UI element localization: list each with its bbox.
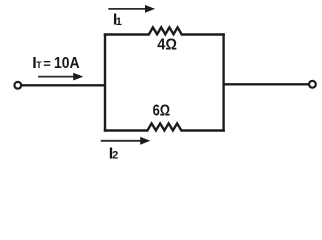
svg-text:=: =	[43, 56, 51, 71]
wire bottom branch with resistor R2 body	[104, 123, 225, 130]
svg-text:10A: 10A	[54, 55, 80, 72]
terminal left	[14, 82, 21, 89]
svg-text:1: 1	[116, 16, 122, 28]
label I2	[109, 145, 118, 162]
terminal right	[309, 81, 316, 88]
wire top branch with resistor R1 body	[104, 27, 225, 34]
current arrow I1	[108, 5, 155, 13]
wire output	[223, 83, 309, 85]
node right branch (vertical bus)	[222, 33, 224, 131]
svg-text:4Ω: 4Ω	[157, 37, 177, 54]
svg-text:T: T	[36, 60, 42, 70]
svg-text:2: 2	[112, 149, 118, 161]
label I1	[113, 12, 122, 29]
wire input	[22, 84, 106, 86]
label IT = 10A	[32, 55, 80, 72]
current arrow I2	[101, 137, 151, 145]
current arrow IT	[38, 73, 83, 81]
svg-text:6Ω: 6Ω	[153, 102, 171, 119]
node left branch (vertical bus)	[104, 33, 106, 131]
